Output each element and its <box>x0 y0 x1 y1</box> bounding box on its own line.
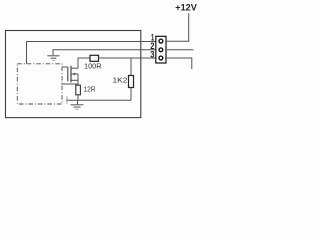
wire: probe shield up-lead <box>26 42 28 64</box>
stray lead left of ground <box>66 96 68 103</box>
wire: 1K2 to ground rail <box>130 88 132 101</box>
pin 2 contact <box>159 48 163 52</box>
svg-text:100R: 100R <box>84 62 102 71</box>
probe screened dashed box <box>17 64 62 104</box>
wire: pin 3 output <box>166 58 192 69</box>
resistor 1K2 <box>129 76 134 88</box>
wire: pin 2 output <box>166 49 194 51</box>
pin 3 contact <box>159 56 163 60</box>
wire: 12R to ground rail <box>77 95 79 101</box>
resistor 100R <box>90 55 99 61</box>
wire: ground line to connector pin 2 <box>53 49 156 51</box>
connector SK1 body <box>156 36 166 63</box>
ground GND1 on pin-2 line <box>47 50 59 61</box>
wire: 100R to connector pin 3 <box>99 57 156 59</box>
wire: pin 1 to +12V rail <box>166 13 189 41</box>
svg-text:1K2: 1K2 <box>113 76 128 85</box>
wire: drain to resistor 100R <box>78 57 90 59</box>
ground GND2 below 12R <box>71 100 84 109</box>
svg-text:+12V: +12V <box>175 2 197 12</box>
svg-text:3: 3 <box>150 50 154 60</box>
wire: node A to connector pin 1 <box>27 41 156 43</box>
pin 1 contact <box>159 39 163 43</box>
transistor Q1 MOSFET <box>62 58 79 85</box>
resistor 12R <box>76 85 81 95</box>
enclosure outer box <box>6 31 141 118</box>
wire: bottom ground rail <box>66 99 131 101</box>
wire: junction to resistor 1K2 <box>130 58 132 76</box>
svg-text:12R: 12R <box>84 84 96 93</box>
